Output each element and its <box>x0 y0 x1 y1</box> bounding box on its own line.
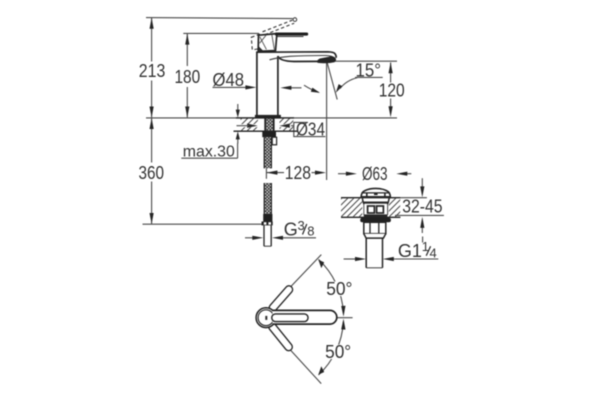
svg-text:max.30: max.30 <box>183 144 235 161</box>
svg-text:128: 128 <box>285 163 311 183</box>
svg-text:120: 120 <box>379 80 405 100</box>
svg-text:G1: G1 <box>398 241 422 261</box>
svg-text:Ø34: Ø34 <box>296 120 325 140</box>
svg-text:Ø63: Ø63 <box>362 164 388 184</box>
svg-text:213: 213 <box>139 61 166 81</box>
svg-text:50°: 50° <box>325 342 351 362</box>
svg-text:G: G <box>284 220 298 240</box>
svg-text:Ø48: Ø48 <box>213 70 245 90</box>
svg-text:32-45: 32-45 <box>402 196 442 216</box>
svg-text:8: 8 <box>307 224 314 239</box>
svg-text:50°: 50° <box>326 279 352 299</box>
svg-text:15°: 15° <box>356 61 382 81</box>
svg-text:4: 4 <box>430 246 437 261</box>
svg-text:360: 360 <box>139 163 165 183</box>
svg-text:180: 180 <box>175 67 201 87</box>
